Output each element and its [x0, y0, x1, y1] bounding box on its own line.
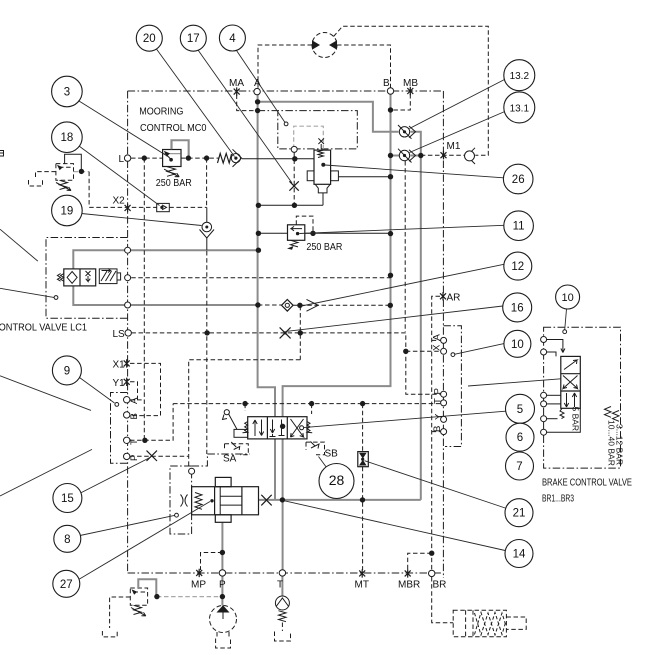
solenoid box 18 (orifice block) — [157, 203, 170, 211]
wire: valve26 bottom return line — [322, 193, 324, 205]
svg-text:CONTROL MC0: CONTROL MC0 — [140, 122, 207, 134]
svg-text:18: 18 — [61, 132, 74, 144]
callout circle 13.2 — [504, 60, 535, 91]
leader 13.2 to coupling — [410, 80, 505, 129]
callout circle 17 — [180, 25, 206, 51]
svg-text:6: 6 — [517, 432, 523, 444]
port circle A (right column) — [441, 337, 447, 343]
wire: brake drop stub to B port (dashed) — [432, 431, 441, 433]
right port sub-frame (dash-dot) — [443, 326, 461, 447]
svg-text:Y1: Y1 — [113, 378, 126, 389]
leader 11 to relief — [300, 225, 504, 233]
leader 18 to solenoid box — [79, 146, 160, 206]
LC1 counterbalance valve — [57, 269, 120, 286]
leader target points — [54, 122, 567, 517]
wire: long pilot drop (dashed) — [206, 251, 208, 454]
throttle X on valve26 pilot (item 17) — [289, 181, 298, 190]
callout circle 4 — [219, 25, 245, 51]
plugged port MA (star) — [234, 87, 240, 95]
leader 13.1 to coupling — [410, 112, 505, 153]
port circle Y (right column) — [441, 416, 447, 422]
throttle X on P pilot line (item 15) — [147, 451, 158, 461]
wire: coupling line down to brake feed — [411, 132, 421, 500]
svg-text:15: 15 — [61, 493, 74, 505]
plugged port X2 (star) — [125, 204, 131, 212]
wire: motor left line to A port (dashed) — [258, 45, 312, 89]
port circle P (left column) — [124, 453, 130, 459]
brake box port circles — [541, 337, 547, 343]
wire: relief 3 pilot loop — [172, 140, 188, 158]
plugged port X1 (star) — [124, 359, 130, 367]
leader 16 to throttle — [287, 306, 503, 331]
wire: LS lower loop (dashed) — [189, 360, 301, 456]
svg-text:8: 8 — [64, 534, 70, 546]
wire: AR to brake drop line (dashed) — [432, 296, 440, 570]
port circle A (top) — [254, 88, 260, 94]
svg-text:250 BAR: 250 BAR — [306, 242, 342, 253]
brake control valve frame (dash-dot) — [544, 327, 621, 468]
brake spring symbol 3..12 BAR — [613, 411, 620, 422]
tank back-pressure check valve (on T) — [275, 596, 291, 641]
callout circle 19 — [52, 195, 83, 226]
wire: M1 test line (dashed) — [421, 154, 464, 156]
svg-text:BR: BR — [433, 580, 447, 591]
main manifold frame (dash-dot) — [128, 91, 444, 578]
svg-text:13.1: 13.1 — [510, 103, 530, 114]
relief valve 11 (250 BAR) — [287, 225, 305, 250]
pressure reducing valve 8 — [181, 477, 259, 522]
wire: A to test coupling 13.2 — [258, 102, 399, 132]
svg-text:26: 26 — [512, 174, 525, 186]
wire: BR to brake cylinders (dashed) — [432, 577, 454, 623]
svg-text:10: 10 — [561, 292, 573, 304]
svg-text:MOORING: MOORING — [139, 106, 183, 118]
callout circle 27 — [53, 570, 80, 597]
plugged port AR (star) — [440, 292, 446, 300]
plugged port M1 (star) — [441, 151, 447, 159]
svg-text:X1: X1 — [113, 360, 126, 371]
cartridge valve 26 — [307, 138, 338, 193]
svg-text:A: A — [432, 334, 443, 341]
leader 19 to check valve — [82, 214, 202, 226]
gear pump (dashed circle) — [210, 605, 237, 648]
leader 26 to cartridge — [325, 165, 504, 178]
svg-text:27: 27 — [60, 579, 73, 591]
port circle A (left column) — [124, 397, 130, 403]
wire: drop to valve 21 (dashed) — [362, 404, 364, 452]
wire: L branch down (dashed) — [206, 158, 208, 207]
svg-text:X: X — [432, 344, 443, 351]
leader 8 to reducing valve — [80, 515, 175, 535]
leader 10 to port box — [454, 344, 504, 355]
svg-text:P: P — [219, 580, 226, 591]
port circle T (left column) — [124, 437, 130, 443]
check valve 19 — [200, 222, 215, 238]
leader 21 to flow valve — [365, 461, 506, 508]
wire: brake drop stub to A port (dashed) — [432, 339, 441, 341]
throttle X 16 on LS line — [280, 327, 291, 338]
callout circle 6 — [506, 423, 534, 451]
port circle BR (bottom) — [429, 570, 435, 576]
svg-text:16: 16 — [511, 302, 524, 314]
wire: check 12 line (dashed) — [258, 304, 282, 306]
test coupling 13.1 — [398, 149, 416, 163]
test coupling 13.2 — [398, 125, 416, 139]
svg-text:M1: M1 — [447, 141, 461, 152]
port circle X (right column) — [441, 348, 447, 354]
wire: T port to check valve — [281, 576, 283, 596]
wire: P port to pump — [221, 576, 223, 606]
svg-text:MB: MB — [403, 78, 418, 89]
svg-text:T: T — [277, 580, 283, 591]
svg-text:L: L — [119, 154, 125, 165]
svg-text:B: B — [129, 413, 140, 419]
wire: MB to B-bus (dashed) — [391, 94, 411, 110]
svg-text:MBR: MBR — [398, 580, 420, 591]
port circle B (left column) — [124, 412, 130, 418]
wire: coupling drain drop (dashed) — [404, 161, 406, 332]
callout circle 8 — [54, 525, 81, 552]
valve 8 sub-frame (dash-dot) — [170, 454, 250, 534]
gray pilot line pump to relief — [157, 596, 223, 598]
wire: motor case drain to M1 coupling (dashed) — [334, 26, 489, 155]
port circle P (bottom) — [219, 570, 225, 576]
leader from off-canvas b — [0, 449, 92, 496]
leader 27 to reducing valve — [80, 502, 211, 580]
svg-text:X2: X2 — [113, 196, 126, 207]
wire: MBR branch (dashed) — [408, 553, 432, 570]
svg-text:3...12 BAR: 3...12 BAR — [615, 424, 625, 465]
wire: LC1 upper line to A-bus — [73, 250, 257, 269]
valve 26 pilot sub-frame (dash-dot) — [258, 111, 358, 149]
leader 10 to brake box — [565, 309, 567, 330]
wire: coupling 13.1 right stub — [411, 155, 421, 157]
wire: L pilot drop line (dashed) — [143, 158, 145, 440]
wire: X2 line from relief 18 (dashed) — [89, 206, 157, 208]
wire: LS line (dashed) — [131, 333, 440, 394]
wire: valve26 pilot drop with throttle (dashed) — [293, 152, 295, 205]
wire: LS to check12 branch (dashed) — [299, 306, 301, 360]
leader 17 to pilot throttle — [198, 50, 292, 183]
LC1 sub-frame (dash-dot) — [46, 238, 128, 319]
leader 14 to junction — [284, 501, 505, 551]
throttle X on brake feed line — [261, 495, 271, 506]
svg-text:BRAKE CONTROL VALVE: BRAKE CONTROL VALVE — [542, 476, 632, 488]
main directional valve 5 (4/3 proportional) — [223, 410, 313, 439]
port circle L — [124, 155, 130, 161]
svg-text:MA: MA — [229, 78, 244, 89]
callout circle 28 — [319, 464, 354, 499]
check valve 20 — [218, 149, 242, 167]
plugged port MB (star) — [407, 87, 413, 95]
svg-text:BR1...BR3: BR1...BR3 — [542, 493, 574, 505]
wire: pump pressure below frame — [221, 522, 223, 573]
wire: LS branch to X port (dashed) — [406, 350, 441, 352]
callout circle 9 — [52, 356, 81, 385]
wire: pilot line y275 LC1 to B-bus (dashed) — [131, 275, 390, 277]
relief valve (bottom left) — [102, 579, 156, 637]
wire: relief 11 bridge line — [258, 232, 287, 234]
port circle P (right column) — [441, 391, 447, 397]
svg-text:B: B — [432, 426, 443, 432]
callout circle 12 — [504, 252, 532, 280]
M1 quick coupling — [465, 148, 476, 164]
callout circle 10 — [504, 330, 531, 357]
pilot-operated check valve 12 — [282, 299, 319, 311]
svg-text:Y: Y — [434, 413, 445, 420]
wire: coupling 13.1 to B-bus — [391, 155, 400, 157]
solenoid SB box — [306, 442, 325, 455]
brake cylinders BR1..BR3 — [453, 610, 526, 637]
svg-text:20: 20 — [143, 33, 156, 45]
wire: A-bus vertical (gray) — [258, 95, 275, 417]
plugged port MP (star) — [196, 569, 202, 577]
relief valve 3 MOORING 250 BAR — [163, 140, 189, 177]
leader 4 to pilot box — [237, 51, 286, 123]
svg-text:28: 28 — [329, 472, 345, 488]
LC1 port circles on frame — [125, 247, 131, 253]
svg-text:LS: LS — [113, 329, 126, 340]
port circle LS — [125, 330, 131, 336]
wire: check 20 to valve 26 (solid) — [242, 158, 314, 160]
wire: MP branch (dashed) — [201, 553, 223, 571]
wire: branch through check 19 — [206, 207, 208, 222]
svg-text:11: 11 — [513, 221, 525, 233]
svg-text:CONTROL VALVE LC1: CONTROL VALVE LC1 — [0, 322, 87, 334]
svg-text:14: 14 — [513, 549, 526, 561]
callout circle 16 — [503, 293, 532, 322]
svg-text:P: P — [433, 388, 444, 394]
svg-text:3: 3 — [64, 87, 70, 99]
svg-text:13.2: 13.2 — [510, 71, 530, 82]
plugged port MBR (star) — [405, 569, 411, 577]
leader from off-canvas to LC1 frame — [0, 229, 38, 261]
wire: B-bus vertical (gray) — [283, 94, 391, 417]
valve 26 inner pilot box (gray dashed) — [294, 126, 324, 149]
callout circle 14 — [505, 540, 533, 568]
cut-off element at left edge — [0, 151, 4, 157]
leader 12 to check — [302, 264, 504, 306]
callout circle 5 — [506, 394, 535, 423]
wire: box 18 to L branch (dashed) — [169, 206, 206, 208]
left port sub-frame (dash-dot) — [111, 393, 128, 464]
wire: A port pilot stub (dashed) — [130, 399, 144, 401]
wire: T port drain line (dashed) — [130, 404, 173, 441]
port circle on valve8 frame — [189, 468, 195, 474]
wire: Y1 pilot (dashed) — [130, 382, 138, 400]
callout circle 13.1 — [504, 92, 535, 123]
svg-text:4: 4 — [229, 33, 236, 45]
wire: L supply line (dashed) — [131, 157, 163, 159]
svg-text:12: 12 — [511, 261, 524, 273]
hydraulic motor M (dashed circle) — [312, 33, 337, 58]
flow control valve 21 — [358, 452, 369, 467]
leader brake valve — [468, 379, 561, 386]
callout circle 26 — [503, 164, 533, 194]
brake control valve (vertical 3-pos) — [547, 340, 581, 433]
wire: main pilot drain rail (dashed) — [173, 402, 440, 405]
leader 3 to relief valve — [79, 101, 170, 158]
svg-text:5 BAR: 5 BAR — [571, 407, 581, 432]
leader 5 to valve — [304, 411, 506, 427]
svg-text:19: 19 — [61, 206, 74, 218]
leader 15 to throttle — [81, 458, 151, 494]
wire: relief 11 pilot loop (dashed) — [296, 216, 313, 233]
svg-text:A: A — [254, 78, 261, 89]
wire: A-bus below main valve to brake line — [274, 439, 276, 500]
callout circle 3 — [52, 76, 83, 107]
svg-text:MT: MT — [355, 580, 369, 591]
svg-text:AR: AR — [447, 293, 461, 304]
svg-text:A: A — [129, 397, 140, 404]
svg-text:SA: SA — [223, 454, 237, 465]
callout circle 7 — [506, 452, 534, 480]
leader 20 to check valve — [155, 47, 235, 157]
port circle B (right column) — [441, 429, 447, 435]
relief valve 18 (left, outside frame) — [29, 154, 90, 206]
wire: drop to lever pilot (dashed) — [244, 404, 246, 411]
svg-text:250 BAR: 250 BAR — [156, 178, 192, 189]
svg-text:5: 5 — [517, 404, 523, 416]
wire: MA stub into manifold (dashed) — [237, 95, 258, 111]
callout circle 11 — [504, 211, 534, 241]
port circle T (bottom) — [279, 570, 285, 576]
wire: P port line with throttle (dashed) — [130, 456, 189, 467]
leader 28 to solenoid SB — [319, 457, 329, 470]
plugged port Y1 (star) — [124, 378, 130, 386]
solenoid SA box — [225, 442, 249, 455]
wire: T line through valve to tank port — [282, 439, 284, 570]
wire: X1 pilot (dashed) — [130, 363, 161, 415]
svg-text:T: T — [433, 398, 444, 404]
svg-text:21: 21 — [513, 508, 526, 520]
circle port on valve26 pilot box — [291, 146, 297, 152]
svg-text:7: 7 — [516, 461, 522, 473]
wire: drop to right pilot spring (dashed) — [311, 404, 313, 414]
wire: brake feed horizontal — [259, 499, 421, 501]
plugged port MT (star) — [359, 569, 365, 577]
callout circle 21 — [505, 499, 533, 527]
port circle B (top) — [387, 88, 393, 94]
leader from off-canvas to LC1 valve — [0, 288, 55, 297]
svg-text:9: 9 — [64, 365, 70, 377]
callout circle 10 — [556, 285, 580, 309]
svg-text:17: 17 — [187, 33, 200, 45]
svg-text:SB: SB — [325, 449, 339, 460]
callout circle 15 — [53, 484, 82, 513]
wire: motor right line to B port (dashed) — [337, 45, 391, 88]
svg-text:B: B — [383, 78, 390, 89]
callout circle 18 — [52, 122, 83, 153]
leader 9 to port group — [80, 378, 115, 404]
svg-text:T: T — [129, 439, 140, 445]
svg-text:P: P — [129, 455, 140, 461]
wire: valve26 right tab to B-bus — [338, 176, 390, 178]
leader from off-canvas a — [0, 376, 91, 411]
svg-text:MP: MP — [191, 580, 206, 591]
wire: LC1 lower line — [73, 286, 258, 305]
wire: L line segment to check valve 20 — [181, 157, 219, 159]
port circle T (right column) — [441, 400, 447, 406]
callout circle 20 — [136, 25, 162, 51]
svg-text:10: 10 — [511, 339, 524, 351]
wire: valve 21 to MT (dashed) — [362, 467, 364, 570]
brake spring symbol 10..40 BAR — [605, 407, 612, 418]
